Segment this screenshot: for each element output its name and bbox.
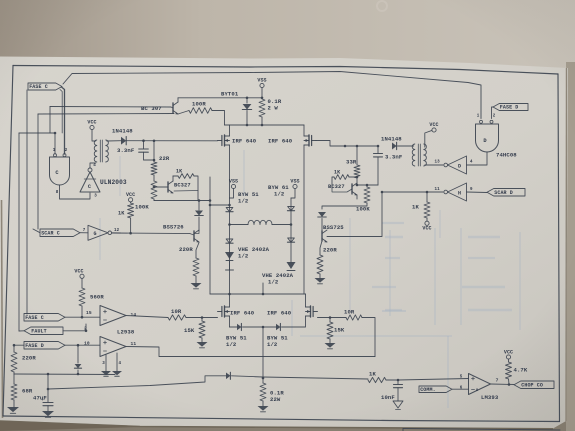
- label 100K left: [135, 204, 149, 211]
- svg-text:9: 9: [470, 188, 473, 192]
- svg-text:COMM.: COMM.: [420, 387, 436, 393]
- inverter pin 4: [93, 164, 96, 168]
- resistor 100K left: [151, 181, 157, 201]
- junction wire y374: [14, 373, 115, 376]
- svg-text:1/2: 1/2: [226, 341, 237, 348]
- ground 47uF: [42, 411, 54, 417]
- VCC symbol mid-left: [126, 192, 135, 202]
- label 1K bottom: [369, 371, 376, 378]
- wire BC307 base run: [50, 107, 171, 134]
- svg-text:1/2: 1/2: [238, 198, 249, 205]
- svg-text:LM393: LM393: [481, 394, 499, 401]
- svg-text:220R: 220R: [22, 355, 36, 362]
- darker bottom background: [0, 405, 575, 431]
- svg-text:2: 2: [84, 326, 87, 332]
- svg-text:100K: 100K: [135, 204, 149, 211]
- label 68R: [22, 388, 33, 395]
- svg-text:SCAR D: SCAR D: [494, 190, 513, 196]
- svg-text:100R: 100R: [192, 101, 206, 108]
- svg-text:14: 14: [131, 312, 137, 318]
- LM393 pin 5: [460, 376, 463, 380]
- label 33R: [346, 159, 357, 166]
- VCC symbol 4.7K: [504, 350, 513, 363]
- diode BYW51 lower-right: [276, 323, 280, 330]
- label 1K left: [176, 169, 182, 175]
- diode bottom bus: [226, 372, 230, 379]
- svg-text:VCC: VCC: [504, 350, 513, 356]
- svg-text:FASE C: FASE C: [29, 84, 48, 90]
- label 4.7K: [514, 367, 528, 374]
- svg-text:2: 2: [65, 149, 68, 153]
- wire 10R to feedback: [362, 318, 375, 357]
- svg-text:68R: 68R: [22, 388, 33, 395]
- label BYW 61 1/2 (right leg): [268, 184, 289, 198]
- svg-text:1: 1: [53, 149, 56, 153]
- svg-text:4.7K: 4.7K: [514, 367, 528, 374]
- LM393 pin 7: [496, 378, 499, 384]
- LM393 pin 6: [460, 387, 463, 391]
- wire y185 node: [356, 184, 378, 187]
- label IRF640 lower-left: [230, 310, 255, 317]
- svg-text:11: 11: [131, 341, 137, 347]
- inductor bridge: [230, 220, 292, 224]
- bottom bus wire: [48, 376, 226, 389]
- label 100R: [192, 101, 206, 108]
- wire center tap down: [262, 327, 265, 379]
- gate C pin 8: [56, 191, 59, 195]
- svg-text:33R: 33R: [346, 159, 357, 166]
- wire COMM to LM393 pin6: [452, 388, 469, 390]
- resistor 15K right: [327, 318, 333, 344]
- svg-text:10R: 10R: [171, 308, 182, 315]
- VSS symbol bridge right: [290, 179, 299, 198]
- inverter ULN2003: [80, 168, 100, 192]
- svg-text:VCC: VCC: [74, 269, 83, 275]
- label 10nF: [381, 394, 395, 401]
- label BC327 left: [174, 183, 191, 189]
- label 560R: [90, 294, 104, 301]
- svg-text:1K: 1K: [369, 371, 376, 378]
- wire FASE D to opamp2: [13, 344, 100, 347]
- svg-text:VCC: VCC: [87, 120, 96, 126]
- diode BYW51 lower-left: [230, 323, 242, 330]
- wire T1 secondary top: [0, 0, 1, 1]
- svg-text:BC327: BC327: [328, 184, 345, 190]
- zener diode left: [195, 201, 204, 232]
- wire BSS726 base: [112, 232, 194, 235]
- opamp L2938 #2: [100, 337, 126, 357]
- label IRF640 lower-right: [267, 310, 292, 317]
- svg-text:1K: 1K: [118, 211, 125, 217]
- label BSS725: [323, 224, 344, 231]
- svg-text:1/2: 1/2: [268, 279, 279, 286]
- wire bus junction to gate: [19, 132, 56, 154]
- wire opamp1 output: [126, 316, 168, 318]
- svg-text:1: 1: [477, 115, 480, 119]
- svg-text:74HC08: 74HC08: [496, 152, 517, 159]
- label BC307: [141, 105, 162, 112]
- svg-text:VCC: VCC: [429, 122, 438, 128]
- transistor BSS725: [322, 230, 327, 242]
- zener diode right: [318, 212, 327, 231]
- svg-text:BC 307: BC 307: [141, 105, 162, 112]
- gate D pin 1: [477, 115, 480, 119]
- flag COMM: [419, 386, 452, 393]
- diode VHE2402A leg-right lower: [287, 238, 294, 242]
- rail y200 left: [154, 199, 210, 202]
- diode VHE2402A leg-left lower: [226, 239, 233, 243]
- wire diode to gate line: [126, 139, 217, 142]
- capacitor 3.3nF left: [139, 141, 154, 160]
- label 22R: [159, 155, 170, 162]
- svg-text:220R: 220R: [179, 246, 193, 253]
- wire FASE C to opamp1: [65, 316, 100, 318]
- gate D (AND, pointing down): [476, 120, 499, 152]
- svg-text:22R: 22R: [159, 155, 170, 162]
- pushpin highlight: [377, 1, 387, 11]
- wire buffer G output: [112, 232, 121, 234]
- label 0.1R 22W: [270, 390, 284, 404]
- capacitor 47uF: [41, 374, 53, 411]
- svg-text:8: 8: [56, 191, 59, 195]
- diode BYW51 leg-left upper: [226, 208, 233, 212]
- resistor 33R: [354, 146, 360, 185]
- ground 0.1R 22W: [258, 406, 269, 412]
- label BYW 51 1/2 (left leg): [238, 191, 259, 205]
- label 1N4148 left: [112, 128, 133, 135]
- wire bus to FAULT: [19, 330, 24, 332]
- label 1K right-loop: [334, 170, 340, 176]
- svg-text:1/2: 1/2: [238, 253, 249, 260]
- wire FASE C cross-couple to gate D: [63, 72, 481, 119]
- wire bus to 1K: [263, 377, 368, 379]
- svg-text:VSS: VSS: [290, 179, 299, 185]
- svg-text:FASE C: FASE C: [25, 315, 44, 321]
- label VHE 2402A (left): [238, 246, 270, 260]
- capacitor 10nF: [394, 380, 403, 401]
- bridge leg left wire: [228, 198, 231, 294]
- svg-text:1N4148: 1N4148: [381, 136, 402, 143]
- buffer H pin 11: [435, 188, 441, 192]
- wire flag to gate input: [60, 87, 65, 154]
- label L2938: [117, 329, 135, 336]
- gate C pin 2: [65, 149, 68, 153]
- opamp2 pin 11: [131, 341, 137, 347]
- resistor 1K right-bottom: [424, 192, 430, 218]
- flag FASE D: [493, 104, 528, 111]
- svg-text:6: 6: [460, 387, 463, 391]
- svg-text:BSS725: BSS725: [323, 224, 344, 231]
- svg-text:FASE D: FASE D: [25, 343, 44, 349]
- label 220R bottom-left: [22, 355, 36, 362]
- mosfet IRF640 lower-right: [306, 294, 318, 317]
- svg-text:1K: 1K: [412, 204, 419, 211]
- wire diode right to T2: [398, 145, 414, 147]
- resistor 1K bottom: [368, 377, 386, 382]
- svg-text:BYT01: BYT01: [221, 91, 239, 98]
- svg-text:4: 4: [93, 164, 96, 168]
- svg-text:BSS726: BSS726: [163, 224, 184, 231]
- wire bus to FASE C lower: [25, 313, 27, 316]
- resistor 4.7K: [506, 362, 512, 385]
- bus wire left vertical 1: [18, 133, 20, 331]
- VSS symbol top: [257, 78, 266, 98]
- svg-text:4: 4: [470, 161, 473, 165]
- svg-text:13: 13: [435, 161, 441, 165]
- svg-text:VCC: VCC: [422, 226, 431, 232]
- darker bottom-left corner: [0, 422, 140, 431]
- wire node to buffer H: [381, 191, 443, 194]
- svg-text:H: H: [458, 190, 461, 196]
- resistor 1K left: [173, 174, 198, 201]
- flag FAULT: [24, 327, 63, 335]
- wire LM393 output: [491, 383, 515, 386]
- transistor BSS726: [194, 230, 199, 242]
- svg-text:3.3nF: 3.3nF: [117, 147, 135, 154]
- mosfet IRF640 upper-right: [304, 125, 316, 294]
- resistor 560R: [79, 288, 85, 319]
- ground 15K left: [197, 342, 208, 348]
- opamp L2938 #1: [100, 306, 126, 326]
- svg-text:VCC: VCC: [126, 192, 135, 198]
- wire diode row right: [282, 316, 306, 327]
- resistor 10R left: [168, 315, 186, 320]
- svg-text:1K: 1K: [176, 169, 182, 175]
- label 1N4148 right: [381, 136, 402, 143]
- wire BSS725 collector run: [327, 192, 382, 237]
- svg-text:10R: 10R: [344, 309, 355, 316]
- diode clamp bottom-left: [74, 344, 81, 374]
- label 15K right: [334, 327, 345, 334]
- opamp1 pin 2: [84, 326, 87, 332]
- wire buffer D to gate D: [467, 152, 488, 165]
- svg-text:1K: 1K: [334, 170, 340, 176]
- label LM393: [481, 394, 499, 401]
- ground opamp pin4: [112, 371, 122, 376]
- svg-text:G: G: [93, 231, 96, 237]
- wire 1K to node: [386, 379, 399, 382]
- bridge leg right wire: [290, 198, 293, 262]
- flag SCAR C: [40, 229, 80, 237]
- svg-text:BC327: BC327: [174, 183, 191, 189]
- rail lower y294: [210, 293, 306, 296]
- buffer G (SCAR C): [88, 225, 112, 240]
- rail top y98: [178, 97, 263, 100]
- wire SCAR C buffer input: [80, 232, 88, 234]
- transistor BC327 right: [332, 183, 357, 199]
- label VHE 2402A (right): [262, 272, 294, 286]
- diode BYW61 leg-right upper: [287, 207, 294, 211]
- label 47uF: [33, 395, 47, 402]
- svg-text:15K: 15K: [184, 327, 195, 334]
- label 15K left: [184, 327, 195, 334]
- resistor 220R bottom-left: [11, 352, 17, 374]
- arrow symbol leg-right: [287, 262, 296, 271]
- resistor 220R left-mid: [193, 243, 199, 277]
- opamp1 pin 14: [131, 312, 137, 318]
- svg-text:100K: 100K: [356, 206, 370, 213]
- resistor 15K left: [199, 318, 205, 343]
- diode 1N4148 (left): [107, 137, 126, 145]
- wire BC307 collector run: [38, 113, 174, 116]
- ground under 220R right: [315, 274, 326, 284]
- flag CHOP CO: [514, 381, 554, 389]
- flag SCAR D: [487, 189, 525, 197]
- label 220R right-mid: [323, 247, 337, 254]
- svg-text:L2938: L2938: [117, 329, 135, 336]
- mosfet IRF640 upper-left: [218, 125, 230, 198]
- buffer G pin 7: [83, 229, 86, 233]
- svg-text:VSS: VSS: [229, 179, 238, 185]
- svg-text:IRF 640: IRF 640: [267, 310, 292, 317]
- ground 15K right: [325, 343, 336, 349]
- wire FAULT to opamps: [63, 324, 87, 332]
- transformer T2: [412, 144, 426, 166]
- label 10R right: [344, 309, 355, 316]
- wire opamp2 output: [126, 347, 375, 357]
- transistor BC307: [171, 98, 178, 115]
- svg-text:CHOP CO: CHOP CO: [521, 382, 543, 388]
- resistor 0.1R 22W: [260, 378, 266, 406]
- svg-text:2: 2: [493, 115, 496, 119]
- resistor 0.1R 2W: [259, 99, 265, 125]
- wire upper-right gate: [316, 141, 379, 148]
- label 10R left: [171, 308, 182, 315]
- ghost bleed-through lines: [434, 228, 436, 325]
- svg-text:3: 3: [102, 362, 105, 366]
- ground 68R: [7, 400, 19, 413]
- svg-text:11: 11: [435, 188, 441, 192]
- svg-text:1N4148: 1N4148: [112, 128, 133, 135]
- comparator LM393: [469, 374, 491, 395]
- flag FASE C (top): [28, 83, 62, 90]
- label IRF640 upper-left: [232, 138, 257, 145]
- svg-text:ULN2003: ULN2003: [100, 179, 127, 186]
- label BYW 51 1/2 lower-left: [226, 335, 247, 349]
- svg-text:3.3nF: 3.3nF: [385, 154, 403, 161]
- buffer D: [444, 156, 467, 174]
- resistor 68R: [11, 374, 17, 400]
- diode 1N4148 (right): [392, 142, 397, 149]
- resistor 100K right: [322, 185, 370, 209]
- svg-text:SCAR C: SCAR C: [41, 230, 60, 236]
- wire T2 secondary bottom: [424, 163, 426, 165]
- flag FASE C (lower): [24, 314, 65, 322]
- svg-text:1/2: 1/2: [267, 341, 278, 348]
- gate D pin 2: [493, 115, 496, 119]
- label 100K right: [356, 206, 370, 213]
- svg-text:7: 7: [496, 378, 499, 384]
- VCC symbol 560R: [74, 269, 84, 289]
- svg-text:560R: 560R: [90, 294, 104, 301]
- wire bus diode to node: [232, 376, 264, 377]
- resistor 100R: [178, 108, 225, 125]
- wire T2 to buffer D: [425, 164, 443, 166]
- svg-text:22W: 22W: [270, 396, 281, 403]
- svg-text:VSS: VSS: [257, 78, 266, 84]
- opamp1 pin 15: [86, 310, 92, 316]
- svg-text:15: 15: [86, 310, 92, 316]
- label 220R left-mid: [179, 246, 193, 253]
- VSS symbol bridge left: [229, 179, 238, 198]
- svg-text:FAULT: FAULT: [31, 328, 47, 334]
- stub center tap: [262, 283, 264, 294]
- resistor 22R: [151, 141, 157, 181]
- ground under 220R: [191, 276, 202, 289]
- bus wire left vertical 2: [26, 90, 28, 314]
- flag FASE D (lower): [24, 342, 65, 350]
- ground opamp pin3: [101, 371, 111, 376]
- label IRF640 upper-right: [268, 138, 293, 145]
- title block box: [403, 429, 560, 431]
- opamp2 pin 10: [84, 341, 90, 347]
- gate C pin 1: [53, 149, 56, 153]
- label 3.3nF left: [117, 147, 135, 154]
- wire buffer H to SCAR D: [467, 191, 488, 194]
- label 0.1R 2W: [268, 98, 282, 112]
- bus wire left vertical 3: [37, 114, 39, 229]
- svg-text:10: 10: [84, 341, 90, 347]
- label 74HC08: [496, 152, 517, 159]
- buffer G pin 12: [114, 229, 120, 233]
- ground 10nF: [393, 401, 403, 410]
- svg-text:47uF: 47uF: [33, 395, 47, 402]
- svg-text:1/2: 1/2: [274, 191, 285, 198]
- VCC symbol left transformer: [87, 120, 96, 141]
- resistor 220R right-mid: [317, 241, 323, 274]
- svg-text:5: 5: [460, 376, 463, 380]
- mosfet IRF640 lower-left: [218, 294, 230, 327]
- buffer D pin 13: [435, 161, 441, 165]
- wire gate C output: [60, 185, 91, 199]
- wire bus to SCAR C: [33, 229, 40, 233]
- label 1K right-bottom: [412, 204, 419, 211]
- rail drain y125: [225, 124, 305, 127]
- wire FASE D row to 220R: [14, 345, 24, 352]
- svg-text:IRF 640: IRF 640: [268, 138, 293, 145]
- label 1K mid-left: [118, 211, 125, 217]
- wire FASE D to gate D: [492, 107, 494, 119]
- wire node to LM393 pin5: [398, 379, 469, 381]
- label ULN2003: [100, 179, 127, 186]
- wire ULN output to transformer: [90, 163, 96, 168]
- wire phase left vertical: [209, 177, 230, 294]
- svg-text:3: 3: [94, 195, 97, 199]
- wire lower-right gate: [318, 316, 347, 319]
- resistor 10R right: [346, 315, 362, 320]
- label 3.3nF right: [385, 154, 403, 161]
- svg-text:220R: 220R: [323, 247, 337, 254]
- inverter pin 3: [94, 195, 97, 199]
- VCC symbol T2: [425, 122, 439, 147]
- buffer H: [444, 183, 467, 201]
- transistor BC327 left: [154, 176, 198, 193]
- paper edge shadows: [0, 421, 553, 429]
- svg-text:C: C: [88, 184, 91, 190]
- svg-text:IRF 640: IRF 640: [230, 310, 255, 317]
- gate C (AND, pointing down): [50, 154, 70, 185]
- label BSS726: [163, 224, 184, 231]
- wire diode row center: [243, 326, 277, 329]
- svg-text:D: D: [458, 163, 461, 169]
- label BC327 right: [328, 184, 345, 190]
- resistor 1K mid-left: [128, 202, 134, 233]
- svg-text:FASE D: FASE D: [500, 105, 519, 111]
- svg-text:4: 4: [118, 362, 121, 366]
- svg-text:2 W: 2 W: [268, 105, 279, 112]
- label BYT01: [221, 91, 239, 98]
- capacitor 3.3nF right: [374, 146, 383, 185]
